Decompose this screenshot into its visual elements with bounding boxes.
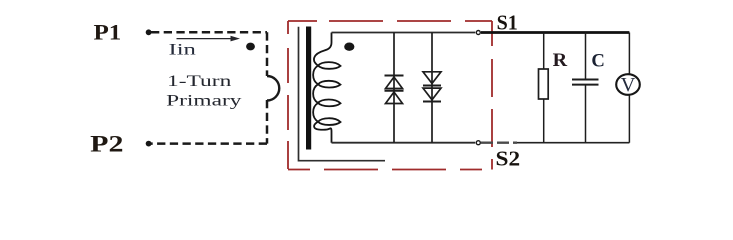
current arrow Iin [177,38,233,40]
wire secondary top [332,32,476,34]
wire S2 to load (dashed part) [481,141,517,143]
diode pair D1 (conducting up) [385,33,404,143]
voltmeter V [616,74,640,95]
svg-text:R: R [553,51,568,71]
svg-text:Primary: Primary [166,93,241,110]
diode pair D2 (conducting down) [423,33,441,143]
svg-text:P2: P2 [90,132,123,157]
secondary winding L1 [313,33,340,143]
terminal dot P1 [146,29,152,35]
resistor R body [539,69,549,99]
terminal S2 (open circle) [476,141,480,145]
core bar (thick) [306,27,311,150]
resistor R branch wires [543,33,545,143]
svg-text:S2: S2 [496,147,521,171]
wire S1 to load [481,31,629,34]
svg-text:Iin: Iin [169,42,196,59]
svg-text:V: V [621,75,636,96]
CT module red dashed box [288,21,492,170]
capacitor C branch wires [585,33,587,143]
primary pass-through bump [267,76,279,101]
svg-text:C: C [591,50,605,71]
terminal S1 (open circle) [476,31,480,35]
wire secondary bottom [332,142,476,144]
svg-text:P1: P1 [94,19,122,44]
svg-text:1-Turn: 1-Turn [167,73,231,90]
wire S2 to load (solid part) [517,142,629,144]
polarity dot primary [246,43,255,51]
primary bus bar (thin) through core [299,27,386,161]
voltmeter V branch wires [628,33,630,143]
wire 1-turn primary dashed loop [151,32,267,143]
polarity dot secondary [344,43,354,51]
capacitor C plates [572,79,599,81]
svg-text:S1: S1 [497,11,518,35]
terminal dot P2 [146,141,152,147]
